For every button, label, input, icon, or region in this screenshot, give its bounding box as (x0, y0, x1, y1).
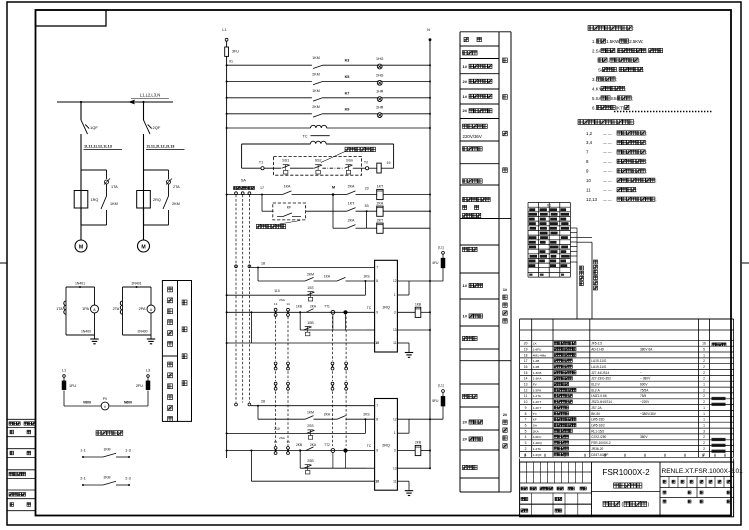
wire row D (226, 311, 228, 313)
svg-text:5.SA: 5.SA (592, 96, 602, 101)
fuse 6FU (369, 167, 377, 169)
svg-text:K3: K3 (345, 59, 350, 63)
svg-text:1#: 1# (463, 64, 468, 69)
circuit breaker 2QF (144, 120, 151, 134)
svg-text:1N401: 1N401 (75, 282, 85, 286)
wire row A pin7 (251, 405, 375, 407)
svg-text:BK-50: BK-50 (591, 412, 600, 416)
wire row F common (226, 342, 228, 344)
bypass contact 1KM (106, 184, 108, 196)
svg-text:1-2TA: 1-2TA (533, 394, 542, 398)
svg-text:3,4: 3,4 (586, 140, 593, 145)
svg-text:(: ( (622, 502, 624, 508)
wire row D (226, 450, 228, 452)
svg-text:2FU: 2FU (136, 384, 143, 388)
svg-text:1-2QF: 1-2QF (533, 453, 542, 457)
svg-text:1KM: 1KM (110, 202, 118, 206)
wire pin1 tie (397, 432, 409, 434)
svg-text:1: 1 (703, 418, 705, 422)
svg-text:LMZ1-0.66: LMZ1-0.66 (591, 394, 607, 398)
wire with phase labels 2L11,2L12,2L13 (143, 134, 145, 225)
svg-text:2L11,2L12,2L13: 2L11,2L12,2L13 (147, 145, 175, 149)
svg-text:;: ; (643, 67, 644, 72)
contact 2KA row D (306, 447, 314, 451)
ammeter 2PA (147, 305, 155, 313)
svg-text:19: 19 (387, 161, 391, 165)
svg-text:9: 9 (376, 449, 378, 453)
svg-text:1KM: 1KM (312, 89, 319, 93)
svg-text:2PA: 2PA (139, 307, 146, 311)
svg-text:2HG: 2HG (376, 73, 384, 77)
svg-text:1KB: 1KB (415, 302, 421, 306)
svg-text:,: , (615, 48, 616, 53)
dotted emphasis underline (614, 111, 712, 113)
svg-text:SS2: SS2 (315, 159, 322, 163)
svg-text:2: 2 (703, 447, 705, 451)
svg-text:2: 2 (703, 441, 705, 445)
svg-text:1KT: 1KT (377, 185, 384, 189)
svg-text:2.SA: 2.SA (592, 48, 602, 53)
svg-text:13: 13 (393, 328, 397, 332)
svg-text:FSR-1000X-2: FSR-1000X-2 (591, 441, 611, 445)
svg-text:10: 10 (375, 479, 379, 483)
node 1N401 (79, 286, 81, 288)
node M (332, 193, 335, 196)
svg-text:1-1: 1-1 (80, 449, 86, 453)
centering mark left (0, 262, 7, 264)
svg-text:11: 11 (586, 188, 591, 193)
svg-text:SSn: SSn (346, 159, 353, 163)
svg-text:LW5-15D: LW5-15D (591, 418, 605, 422)
contact 2KM (313, 82, 323, 85)
svg-text:2: 2 (703, 388, 705, 392)
contact 1KA row B (314, 280, 338, 282)
fuse 3FU (226, 41, 228, 47)
svg-text:2SA: 2SA (279, 298, 285, 302)
svg-text:2.5KW;: 2.5KW; (629, 39, 643, 44)
svg-text:;: ; (646, 131, 647, 136)
svg-text:LA19-11/G: LA19-11/G (591, 359, 607, 363)
svg-text:11: 11 (393, 341, 397, 345)
svg-text:18: 18 (261, 261, 265, 265)
svg-text:KF: KF (287, 206, 292, 210)
svg-text:19: 19 (524, 348, 528, 352)
wire (147, 391, 149, 407)
contact 2KA (333, 194, 347, 196)
time relay coil 1KT (377, 189, 383, 199)
svg-text:2KB: 2KB (296, 443, 302, 447)
wire pin12 to N (397, 280, 443, 282)
svg-text:13: 13 (393, 466, 397, 470)
svg-text:2#: 2# (463, 108, 468, 113)
svg-text:;: ; (646, 150, 647, 155)
wire rejoin 2 (143, 208, 145, 240)
ground (150, 335, 152, 339)
bypass branch wire 1 (81, 169, 107, 171)
svg-text:2TA: 2TA (173, 185, 180, 189)
svg-text:9: 9 (376, 311, 378, 315)
power bus L1,L2,L3,N (57, 101, 173, 103)
svg-text:JZ7-44/JS14: JZ7-44/JS14 (591, 371, 609, 375)
svg-text::: : (633, 26, 634, 31)
centering mark right (742, 262, 749, 264)
svg-text:1FU: 1FU (69, 384, 76, 388)
bypass button 2SB (299, 451, 301, 469)
wire pin13 to N (397, 467, 430, 469)
svg-text:2RQ: 2RQ (153, 198, 161, 202)
svg-text:1.5KW.: 1.5KW. (606, 39, 620, 44)
indicator lamp row 1HG (226, 64, 228, 66)
circuit breaker 1QF (81, 120, 88, 134)
label box current/voltage measuring circuit (162, 281, 177, 422)
CT winding 1TA (64, 301, 66, 314)
svg-text:— —: — — (603, 141, 612, 145)
svg-text:1: 1 (394, 293, 396, 297)
svg-text:2KM: 2KM (312, 105, 319, 109)
label remote control center (96, 431, 101, 436)
svg-text:TT2: TT2 (324, 443, 330, 447)
svg-text:2: 2 (703, 365, 705, 369)
notes title soft starter terminals description (578, 120, 583, 125)
voltmeter PV (101, 402, 109, 410)
svg-text:1-3: 1-3 (125, 449, 131, 453)
wire tie row D to row F (250, 311, 252, 313)
ground pin11 (397, 480, 409, 482)
junction plug (343, 448, 347, 452)
svg-text:10: 10 (375, 341, 379, 345)
svg-text:4-6FU: 4-6FU (533, 435, 542, 439)
relay logic row 1 wire 17 (226, 194, 228, 196)
svg-text:L1,L2,L3,N: L1,L2,L3,N (140, 93, 161, 98)
svg-text:2KA: 2KA (348, 219, 355, 223)
svg-text:2KM: 2KM (307, 273, 314, 277)
wire (63, 391, 65, 407)
legend row common terminal (463, 247, 467, 251)
svg-text:11: 11 (393, 479, 397, 483)
wire branch 1 (80, 102, 82, 120)
label box measuring circuit (178, 281, 192, 422)
legend row electric devices (464, 37, 468, 41)
svg-text:8: 8 (376, 279, 378, 283)
svg-text:SA: SA (241, 179, 247, 183)
svg-text:JSZ3-4H/JS14: JSZ3-4H/JS14 (591, 400, 612, 404)
svg-text:15: 15 (524, 371, 528, 375)
svg-text:2-1: 2-1 (80, 477, 86, 481)
selector switch dashed poles (235, 195, 237, 403)
control rail L1 wire (226, 56, 228, 458)
svg-text:4M1-4Ma: 4M1-4Ma (533, 353, 546, 357)
svg-text:17: 17 (524, 359, 528, 363)
terminal L1 (63, 375, 66, 378)
svg-text:2: 2 (525, 447, 527, 451)
right grid labels (663, 480, 666, 483)
svg-text:18: 18 (524, 353, 528, 357)
svg-text:3.: 3. (592, 77, 596, 82)
wire tie (366, 211, 368, 228)
svg-text:,: , (646, 48, 647, 53)
legend row common terminal (463, 394, 467, 398)
svg-text:;: ; (655, 178, 656, 183)
svg-text:7: 7 (376, 404, 378, 408)
svg-text:K7: K7 (345, 91, 350, 95)
terminal block wiring text (529, 208, 535, 211)
title block subtitle (614, 483, 619, 488)
svg-text:2KB: 2KB (415, 441, 421, 445)
current transformer loop 2TA (123, 286, 152, 288)
wire pin12 to N (397, 418, 443, 420)
svg-text:110: 110 (274, 289, 280, 293)
fuse 1FU (63, 377, 65, 381)
contact 1KM (313, 98, 323, 101)
svg-text:— —: — — (603, 151, 612, 155)
svg-text:N: N (427, 28, 430, 32)
relay coil 1KB (397, 311, 415, 313)
svg-text:1: 1 (703, 406, 705, 410)
svg-text:DZ47-63/3P: DZ47-63/3P (591, 453, 608, 457)
svg-text:2KM: 2KM (312, 73, 319, 77)
svg-text:L3: L3 (146, 369, 150, 373)
svg-text:5: 5 (525, 429, 527, 433)
svg-text:;: ; (632, 96, 633, 101)
svg-text:1TA: 1TA (56, 307, 63, 311)
svg-text:2TA: 2TA (113, 307, 120, 311)
bypass branch wire 2 (144, 169, 169, 171)
svg-text:14: 14 (524, 377, 528, 381)
svg-text:220V/36V: 220V/36V (463, 134, 482, 139)
svg-text:16: 16 (524, 365, 528, 369)
svg-text:V600: V600 (83, 401, 91, 405)
svg-text:~220V: ~220V (640, 400, 650, 404)
wire row B pin8 (257, 406, 259, 420)
svg-text:1-2KT: 1-2KT (533, 406, 542, 410)
thermal sensor 1TA (105, 180, 109, 184)
svg-text:RENLE.XT.FSR.1000X-2.01: RENLE.XT.FSR.1000X-2.01 (662, 468, 744, 475)
svg-text:2HR: 2HR (376, 106, 384, 110)
svg-text:M: M (141, 244, 145, 250)
svg-text:— —: — — (603, 170, 612, 174)
svg-text:2KA: 2KA (310, 305, 317, 309)
CT winding 2TA (120, 301, 122, 314)
svg-text:1#: 1# (463, 283, 468, 288)
svg-text:2KA: 2KA (377, 201, 384, 205)
title block right grid (660, 476, 734, 478)
svg-text:10: 10 (586, 178, 591, 183)
svg-text:K9: K9 (345, 107, 350, 111)
terminal T2 (366, 167, 369, 170)
svg-text:1#: 1# (463, 314, 468, 319)
motor M1 (75, 240, 87, 252)
ground pin11 (397, 342, 409, 344)
wire row C (226, 432, 228, 434)
svg-text:;: ; (616, 77, 617, 82)
svg-text:K5: K5 (345, 75, 350, 79)
soft starter 1RQ box (375, 260, 398, 352)
wire row C (226, 294, 228, 296)
svg-text:6L2-V: 6L2-V (591, 383, 600, 387)
svg-text:1-2PA: 1-2PA (533, 388, 542, 392)
soft starter 2RQ box (375, 399, 398, 491)
svg-text:1KM: 1KM (104, 448, 111, 452)
lamp 1HG (377, 64, 382, 69)
component legend column (459, 32, 461, 492)
svg-text:;: ; (639, 58, 640, 63)
legend row start delay (463, 179, 467, 183)
contact 2KM row B (305, 416, 314, 420)
svg-text:L1: L1 (62, 369, 66, 373)
node 2N401 (136, 286, 138, 288)
wire pin1 tie (397, 294, 409, 296)
svg-text:1: 1 (703, 353, 705, 357)
svg-text:10: 10 (524, 400, 528, 404)
top-left revision box (36, 10, 107, 26)
svg-text:1RQ: 1RQ (382, 305, 390, 309)
lamp 2HR (377, 113, 382, 118)
contact 1KM to center terminals 1-1 1-3 (82, 456, 84, 458)
svg-text:2: 2 (703, 359, 705, 363)
svg-text:1-2B: 1-2B (533, 359, 540, 363)
node 1KB (299, 311, 301, 313)
svg-text:1#: 1# (463, 94, 468, 99)
contact 1KM (313, 65, 323, 68)
relay coil 2KA (377, 206, 383, 216)
svg-text:75/5: 75/5 (640, 394, 646, 398)
svg-text:12,13: 12,13 (586, 197, 598, 202)
time relay coil 2KT (377, 223, 383, 233)
svg-text:11: 11 (524, 394, 528, 398)
label external fire buttons (345, 147, 350, 152)
soft-starter module 2RQ (137, 191, 151, 209)
svg-text:210: 210 (274, 427, 280, 431)
svg-text:LX: LX (533, 342, 537, 346)
svg-text:3: 3 (394, 311, 396, 315)
junction plug (343, 310, 347, 314)
svg-text:14: 14 (286, 302, 290, 306)
svg-text:2KM: 2KM (104, 476, 111, 480)
svg-text:~: ~ (640, 371, 642, 375)
wire row B pin8 (257, 268, 259, 282)
lamp 1HR (377, 97, 382, 102)
svg-text:2RQ: 2RQ (382, 444, 390, 448)
svg-text:7: 7 (376, 266, 378, 270)
svg-text:2SA: 2SA (279, 436, 285, 440)
connector columns between sections (275, 317, 277, 362)
svg-text:1: 1 (703, 383, 705, 387)
svg-text:13: 13 (524, 383, 528, 387)
indicator lamp row 1HR (226, 97, 228, 99)
svg-text:TC: TC (367, 306, 372, 310)
svg-text:(KT): (KT) (616, 105, 625, 110)
svg-text:4.KY: 4.KY (592, 86, 602, 91)
svg-text:2: 2 (703, 377, 705, 381)
svg-text:3FU: 3FU (232, 50, 239, 54)
stop button SS1 (283, 164, 289, 166)
stop button 2SS (308, 429, 314, 431)
svg-text:2KA: 2KA (348, 185, 355, 189)
wire secondary to T1 (242, 167, 261, 169)
svg-text:2KA: 2KA (310, 443, 317, 447)
svg-text:,: , (608, 58, 609, 63)
svg-text:T1: T1 (259, 161, 263, 165)
svg-text:— —: — — (603, 132, 612, 136)
svg-text:1KA: 1KA (284, 185, 291, 189)
contact 1KA (282, 191, 291, 195)
svg-text:2SS: 2SS (307, 424, 314, 428)
thermal sensor 2TA (167, 180, 171, 184)
svg-text:1PA: 1PA (82, 307, 89, 311)
svg-text:(L1): (L1) (438, 246, 444, 250)
ammeter 1PA (91, 305, 99, 313)
svg-text:2: 2 (703, 400, 705, 404)
svg-text:FSR1000X-2: FSR1000X-2 (602, 468, 650, 477)
legend row control transformer (463, 124, 467, 128)
BOM bottom tick row (524, 454, 526, 457)
svg-text:1KM: 1KM (307, 411, 314, 415)
svg-text:23: 23 (365, 187, 369, 191)
36V secondary loop box (242, 143, 311, 145)
svg-text:— —: — — (603, 179, 612, 183)
bypass button 1SB (299, 312, 301, 330)
svg-text:SS1: SS1 (282, 159, 289, 163)
soft-starter module 1RQ (74, 191, 88, 209)
connector terminals row D (274, 447, 277, 450)
stop button SS2 (315, 164, 321, 166)
contact 2KA row3 (347, 225, 356, 229)
svg-text:5: 5 (703, 348, 705, 352)
svg-text:(L1): (L1) (438, 384, 444, 388)
svg-text:5FU: 5FU (432, 399, 439, 403)
svg-text:4: 4 (525, 435, 527, 439)
indicator lamp row 2HR (226, 113, 228, 115)
svg-text:1L11,1L12,1L13: 1L11,1L12,1L13 (84, 145, 112, 149)
svg-text:1-2KT: 1-2KT (533, 400, 542, 404)
title block revision grid (520, 471, 592, 473)
terminal L3 (147, 375, 150, 378)
svg-text:2SB: 2SB (307, 459, 314, 463)
svg-text:JF5-2.5: JF5-2.5 (591, 342, 602, 346)
svg-text:RL1-15/2: RL1-15/2 (591, 429, 604, 433)
svg-text:13: 13 (274, 302, 278, 306)
svg-text:3: 3 (703, 429, 705, 433)
svg-text:M: M (332, 186, 335, 190)
wire tie row D to row F (250, 450, 252, 452)
terminal block side column (570, 227, 577, 229)
svg-text:53: 53 (365, 204, 369, 208)
motor M2 (138, 240, 150, 252)
fuse 2FU (147, 377, 149, 381)
svg-text:): ) (648, 502, 650, 508)
svg-text:12: 12 (524, 388, 528, 392)
svg-text:AD-2.HD: AD-2.HD (591, 348, 604, 352)
svg-text:TC: TC (302, 135, 307, 139)
svg-text:20: 20 (524, 342, 528, 346)
wire row F common (251, 480, 374, 482)
contact 2KM (313, 114, 323, 117)
svg-text:1KA: 1KA (324, 274, 331, 278)
svg-text:TT1: TT1 (324, 305, 330, 309)
svg-text:2: 2 (703, 435, 705, 439)
svg-text:1HG: 1HG (376, 57, 384, 61)
svg-text:6L2-A: 6L2-A (591, 388, 600, 392)
svg-text:1QF: 1QF (90, 125, 98, 130)
svg-text:L1: L1 (222, 28, 226, 32)
wire branch 2 (143, 102, 145, 120)
contact 1KA row B (314, 418, 338, 420)
svg-text:— —: — — (603, 189, 612, 193)
svg-text:7: 7 (525, 418, 527, 422)
current transformer loop 1TA (66, 286, 95, 288)
svg-text:2#: 2# (463, 79, 468, 84)
svg-text:17: 17 (260, 186, 264, 190)
